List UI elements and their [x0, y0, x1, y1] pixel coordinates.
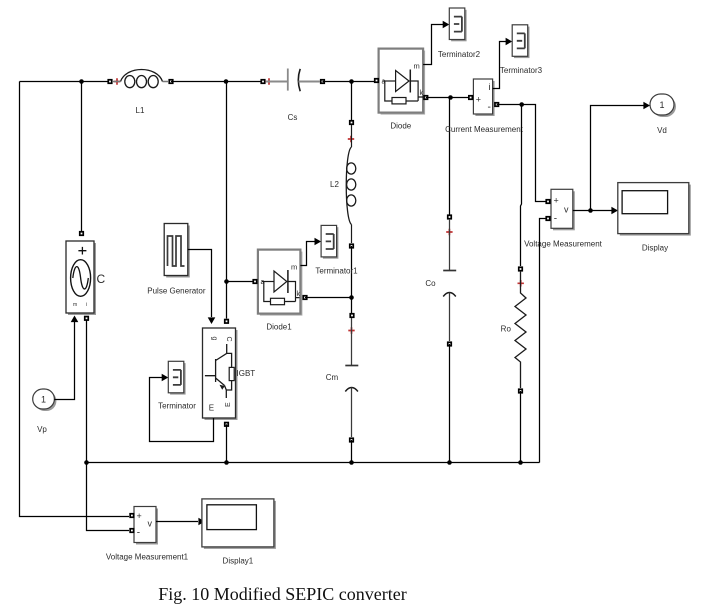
svg-text:k: k	[420, 90, 424, 97]
svg-text:Voltage Measurement1: Voltage Measurement1	[106, 553, 189, 562]
svg-text:Vd: Vd	[657, 126, 667, 135]
svg-text:Ro: Ro	[501, 325, 512, 334]
output port Vd	[650, 94, 676, 135]
resistor Ro	[501, 266, 526, 393]
wire CM minus output to Voltage Measurement plus	[497, 105, 546, 202]
wire VM output to Display	[573, 210, 612, 212]
svg-text:-: -	[554, 214, 557, 225]
wire bottom rail	[87, 462, 540, 464]
wire Diode k to Current Measurement	[426, 97, 468, 99]
svg-text:k: k	[297, 291, 301, 298]
wire top rail left segment	[20, 81, 111, 83]
terminator Terminator	[168, 361, 185, 394]
wire Ro to bottom rail	[520, 391, 522, 463]
svg-text:E: E	[209, 404, 214, 413]
wire Pulse Generator to IGBT gate	[188, 250, 212, 318]
svg-text:i: i	[86, 302, 87, 308]
svg-text:Terminator1: Terminator1	[315, 267, 358, 276]
terminator Terminator1	[321, 225, 338, 258]
svg-text:C: C	[97, 272, 106, 286]
pulse generator Pulse Generator	[147, 224, 206, 296]
wire IGBT emitter to rail	[226, 424, 228, 462]
svg-text:-: -	[137, 528, 140, 539]
node junction top-left	[79, 79, 84, 84]
source AC voltage source C	[66, 231, 106, 321]
svg-text:C: C	[225, 337, 232, 342]
wire branch to Diode1 anode	[227, 281, 254, 283]
svg-text:Co: Co	[425, 279, 436, 288]
inductor L1	[107, 70, 173, 116]
svg-text:1: 1	[659, 100, 664, 110]
svg-text:Cm: Cm	[326, 373, 339, 382]
capacitor Cm	[326, 313, 359, 443]
inductor L2	[330, 120, 356, 249]
capacitor Co	[425, 214, 456, 346]
wire IGBT m loop to Terminator	[150, 378, 214, 442]
svg-text:Vp: Vp	[37, 425, 47, 434]
wire Co to bottom rail	[449, 344, 451, 463]
svg-text:m: m	[73, 302, 77, 308]
display Display1	[202, 499, 276, 566]
svg-text:Pulse Generator: Pulse Generator	[147, 287, 206, 296]
svg-text:m: m	[291, 263, 297, 272]
svg-text:E: E	[225, 402, 232, 407]
svg-text:-: -	[488, 102, 491, 113]
wire IGBT collector column	[226, 82, 228, 319]
input port Vp	[33, 389, 57, 434]
svg-text:IGBT: IGBT	[237, 369, 256, 378]
wire AC source top feed	[81, 82, 83, 232]
svg-text:Terminator: Terminator	[158, 402, 196, 411]
wire Cm to bottom rail	[351, 440, 353, 463]
svg-text:Diode1: Diode1	[266, 323, 292, 332]
svg-text:Display: Display	[642, 244, 668, 253]
svg-text:v: v	[148, 519, 153, 529]
wire Ro top feed	[521, 105, 522, 267]
wire VM minus return to rail	[540, 219, 547, 463]
svg-text:Display1: Display1	[223, 557, 254, 566]
transistor IGBT	[203, 328, 256, 420]
wire branch up to Vd	[591, 106, 645, 211]
svg-text:L1: L1	[136, 106, 145, 115]
svg-text:Voltage Measurement: Voltage Measurement	[524, 240, 603, 249]
wire L2 to Cm with Diode1 k junction	[351, 246, 353, 313]
wire Co top feed	[449, 98, 452, 218]
wire Cs to Diode anode	[323, 81, 375, 83]
voltage sensor Voltage Measurement	[524, 189, 603, 248]
wire rail to Voltage Measurement1 minus	[87, 463, 130, 531]
wire L1 to Cs	[171, 81, 263, 83]
current sensor Current Measurement	[445, 79, 524, 134]
svg-text:i: i	[489, 82, 491, 92]
terminator Terminator3	[512, 25, 529, 58]
svg-text:Fig. 10 Modified SEPIC convert: Fig. 10 Modified SEPIC converter	[158, 584, 406, 604]
display Display	[618, 183, 691, 253]
terminator Terminator2	[449, 8, 466, 41]
capacitor Cs	[260, 69, 325, 123]
svg-text:Terminator3: Terminator3	[500, 66, 543, 75]
svg-text:L2: L2	[330, 180, 339, 189]
voltage sensor Voltage Measurement1	[106, 507, 189, 562]
wire Diode1 m to Terminator1	[300, 242, 315, 266]
wire Diode m to Terminator2	[423, 25, 443, 65]
wire left vertical rail	[20, 82, 130, 517]
svg-text:1: 1	[41, 395, 46, 405]
node junction above L2	[349, 79, 354, 84]
svg-text:+: +	[554, 196, 559, 206]
wire Vp to AC source input	[54, 322, 74, 400]
wire Diode1 k to L2/Cm column	[305, 297, 352, 299]
svg-text:Diode: Diode	[390, 122, 411, 131]
svg-text:g: g	[211, 337, 218, 341]
diode U Diode1	[252, 250, 307, 332]
svg-text:Cs: Cs	[288, 113, 298, 122]
svg-text:m: m	[414, 62, 420, 71]
svg-text:+: +	[137, 511, 142, 521]
svg-text:+: +	[476, 95, 481, 105]
svg-text:Terminator2: Terminator2	[438, 50, 481, 59]
svg-text:v: v	[564, 205, 569, 215]
svg-text:Current Measurement: Current Measurement	[445, 125, 524, 134]
node junction above IGBT column	[224, 79, 229, 84]
diode U Diode (top)	[374, 49, 429, 131]
wire L2 top feed	[351, 82, 353, 121]
wire AC source to bottom rail	[86, 320, 88, 463]
wire VM1 output to Display1	[156, 521, 198, 523]
wire CM i output to Terminator3	[493, 42, 506, 89]
